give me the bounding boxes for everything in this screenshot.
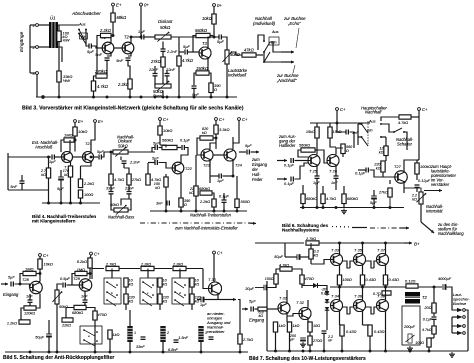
wire bbox=[36, 273, 40, 275]
wire bbox=[48, 338, 50, 353]
wire bbox=[191, 304, 193, 310]
wire bbox=[128, 199, 131, 210]
resistor 10 bbox=[308, 322, 312, 332]
wire bbox=[179, 269, 181, 279]
arrow to Echo jack bbox=[281, 51, 294, 54]
wire bbox=[309, 332, 311, 336]
svg-text:50kΩ: 50kΩ bbox=[160, 25, 171, 30]
resistor 150k bbox=[196, 71, 209, 75]
wire bbox=[370, 170, 384, 177]
wire bbox=[128, 53, 131, 57]
wire ground rail bbox=[42, 202, 100, 204]
wire ground rail bbox=[150, 210, 247, 212]
wire bbox=[166, 76, 168, 86]
svg-text:2.2nF: 2.2nF bbox=[166, 49, 178, 54]
input terminal 2 bbox=[36, 46, 39, 49]
wire bbox=[142, 330, 144, 337]
resistor 47k bbox=[242, 53, 256, 57]
resistor 12k bbox=[384, 146, 388, 156]
wire bbox=[326, 311, 328, 312]
wire bbox=[335, 179, 337, 191]
wire bbox=[374, 261, 377, 268]
wire bbox=[385, 243, 387, 254]
wire input bracket bbox=[29, 25, 31, 73]
wire bbox=[343, 262, 354, 270]
svg-text:4.7kΩ: 4.7kΩ bbox=[182, 58, 193, 63]
wire bbox=[404, 188, 421, 192]
wire bbox=[309, 345, 311, 351]
resistor 2.2k bbox=[212, 199, 216, 207]
wire bbox=[97, 47, 102, 49]
resistor 220k bbox=[381, 161, 385, 172]
resistor 560k bbox=[196, 33, 210, 37]
svg-text:Anschluß: Anschluß bbox=[34, 145, 53, 150]
transistor T3 bbox=[199, 47, 211, 59]
potentiometer Bass 50k bbox=[155, 81, 171, 91]
capacitor 5uF bbox=[99, 155, 101, 160]
wire bbox=[8, 189, 48, 191]
transistor T24 bbox=[224, 149, 236, 161]
wire bbox=[30, 72, 36, 74]
wire bbox=[403, 183, 405, 188]
wire bbox=[276, 269, 280, 274]
wire bbox=[330, 144, 336, 147]
wire bbox=[178, 37, 180, 56]
resistor 22k bbox=[62, 318, 73, 322]
wire bbox=[390, 197, 404, 201]
wire bbox=[286, 314, 288, 322]
svg-text:T 38: T 38 bbox=[377, 294, 386, 299]
svg-text:T 31: T 31 bbox=[279, 296, 287, 301]
svg-text:Nachhallsystems: Nachhallsystems bbox=[282, 228, 320, 233]
wire bbox=[416, 174, 418, 180]
wire bbox=[417, 286, 419, 292]
resistor 22k bbox=[194, 186, 198, 196]
capacitor 1uF bbox=[315, 176, 320, 178]
wire bbox=[309, 332, 311, 336]
terminal C+ bbox=[336, 108, 339, 111]
wire bbox=[159, 147, 163, 149]
terminal C+ bbox=[215, 118, 218, 121]
wire bbox=[374, 307, 377, 314]
wire input shield bbox=[7, 153, 9, 190]
capacitor 5nF bbox=[126, 58, 131, 60]
wire bbox=[152, 148, 155, 153]
wire bbox=[147, 163, 149, 174]
wire bbox=[86, 30, 89, 47]
wire signal bbox=[131, 36, 140, 38]
terminal C+ bbox=[418, 108, 421, 111]
wire bbox=[180, 174, 182, 198]
wire bbox=[340, 324, 343, 326]
wire bbox=[58, 24, 79, 26]
switch Hauptschalter bbox=[361, 121, 382, 146]
capacitor 5uF bbox=[155, 145, 157, 150]
wire bbox=[36, 75, 38, 98]
transistor T20 bbox=[62, 152, 73, 163]
svg-text:kΩ: kΩ bbox=[195, 283, 200, 287]
resistor 0.43 bbox=[383, 275, 387, 285]
wire bbox=[162, 342, 164, 352]
wire dash-dot bbox=[140, 222, 252, 224]
capacitor 5uF bbox=[251, 307, 253, 312]
wire bbox=[213, 254, 215, 282]
svg-text:Hallfeder: Hallfeder bbox=[279, 143, 296, 148]
arrowhead bbox=[248, 222, 256, 225]
wire bbox=[48, 338, 50, 353]
wire bbox=[94, 76, 97, 81]
wire bbox=[203, 269, 209, 289]
wire bbox=[350, 132, 355, 148]
wire bbox=[114, 47, 122, 49]
wire bbox=[267, 280, 276, 282]
wire bbox=[256, 54, 263, 56]
resistor 1k bbox=[108, 330, 112, 339]
wire bbox=[405, 286, 407, 292]
wire bbox=[302, 285, 313, 287]
wire bbox=[324, 334, 327, 352]
terminal C+ bbox=[418, 108, 421, 111]
wire bbox=[254, 243, 256, 288]
resistor 22k bbox=[194, 186, 198, 196]
wire bbox=[29, 303, 31, 307]
wire bbox=[287, 314, 299, 317]
switch filter c bbox=[140, 278, 157, 306]
capacitor 1uF bbox=[142, 35, 144, 40]
wire bbox=[298, 150, 309, 157]
capacitor 0.1uF bbox=[222, 200, 227, 202]
wire bbox=[36, 273, 40, 275]
resistor 560 bbox=[235, 199, 239, 208]
wire bbox=[48, 178, 50, 203]
svg-text:47kΩ: 47kΩ bbox=[244, 48, 254, 53]
wire bbox=[80, 198, 82, 203]
resistor 170k bbox=[68, 166, 72, 177]
wire bbox=[381, 136, 386, 138]
wire output rail bbox=[330, 286, 406, 288]
wire bbox=[120, 157, 122, 161]
wire bbox=[385, 312, 387, 321]
wire bbox=[373, 200, 375, 208]
capacitor 0.1uF bbox=[182, 145, 184, 150]
wire bbox=[72, 274, 75, 286]
resistor 2.2k bbox=[78, 179, 82, 188]
resistor 3.3k bbox=[309, 249, 313, 259]
wire bbox=[213, 24, 215, 37]
electrolytic 50uF bbox=[46, 334, 52, 337]
transistor T24 bbox=[224, 149, 236, 161]
wire bbox=[200, 342, 202, 352]
wire bbox=[284, 243, 286, 257]
wire dash-dot segment bbox=[352, 227, 367, 229]
wire bbox=[40, 278, 62, 284]
electrolytic 1uF bbox=[201, 297, 204, 303]
wire T33 base feed bbox=[311, 259, 331, 264]
wire bbox=[125, 304, 127, 310]
wire bbox=[102, 152, 113, 157]
wire bbox=[343, 260, 354, 267]
resistor 100 bbox=[78, 190, 82, 198]
wire bbox=[418, 286, 421, 292]
wire bbox=[295, 163, 309, 179]
wire bbox=[302, 332, 304, 338]
wire leader bbox=[296, 28, 299, 48]
wire bbox=[165, 187, 167, 211]
svg-text:Eingang: Eingang bbox=[3, 292, 19, 297]
wire bbox=[452, 317, 457, 326]
resistor 22k bbox=[62, 318, 73, 322]
terminal C+ bbox=[159, 118, 162, 121]
capacitor 1uF bbox=[219, 174, 221, 179]
wire bbox=[329, 123, 331, 127]
resistor 4.7k bbox=[280, 267, 292, 271]
wire bbox=[29, 294, 31, 301]
wire bbox=[213, 254, 215, 282]
wire bbox=[403, 188, 405, 193]
wire bbox=[223, 193, 225, 200]
svg-text:T2: T2 bbox=[422, 295, 427, 300]
svg-text:kΩ: kΩ bbox=[202, 131, 207, 135]
wire bbox=[58, 24, 79, 26]
wire bbox=[92, 269, 104, 280]
wire bbox=[30, 24, 36, 26]
wire bbox=[20, 274, 23, 285]
wire bbox=[418, 111, 420, 118]
wire bbox=[162, 42, 164, 49]
wire bbox=[292, 269, 302, 275]
wire bbox=[340, 324, 343, 326]
capacitor 22nF bbox=[165, 74, 170, 76]
resistor 4.7k bbox=[91, 81, 95, 91]
wire bbox=[29, 294, 31, 300]
svg-text:1MΩ: 1MΩ bbox=[25, 267, 34, 272]
wire bbox=[418, 111, 420, 118]
wire bbox=[129, 310, 131, 326]
capacitor 1nF bbox=[83, 300, 88, 302]
wire bbox=[125, 304, 127, 310]
wire bbox=[357, 124, 359, 145]
wire bbox=[339, 285, 341, 287]
wire bbox=[417, 286, 419, 287]
svg-text:Ein: Ein bbox=[367, 129, 373, 133]
wire bbox=[336, 243, 338, 254]
wire bbox=[7, 322, 9, 352]
resistor 150 bbox=[274, 274, 278, 284]
wire bbox=[147, 269, 149, 279]
wire bbox=[357, 145, 359, 170]
wire bbox=[323, 334, 325, 352]
svg-text:1µF: 1µF bbox=[217, 179, 224, 183]
wire bbox=[193, 36, 196, 53]
wire bbox=[451, 310, 453, 326]
wire bbox=[200, 310, 202, 326]
resistor 680k bbox=[200, 191, 212, 195]
wire bbox=[357, 145, 359, 170]
capacitor 5uF bbox=[11, 282, 13, 287]
transformer U1 bbox=[49, 22, 58, 48]
svg-text:100Ω: 100Ω bbox=[415, 341, 424, 345]
resistor 820k bbox=[200, 136, 213, 140]
resistor 4.7k bbox=[321, 194, 325, 204]
wire bbox=[418, 117, 420, 160]
wire bbox=[210, 35, 213, 37]
wire bbox=[36, 294, 40, 308]
resistor 0.43 bbox=[360, 275, 364, 285]
wire bbox=[350, 261, 354, 268]
wire bbox=[433, 334, 435, 338]
capacitor 2.2nF bbox=[322, 331, 327, 333]
wire bbox=[391, 293, 394, 299]
wire bbox=[326, 312, 328, 331]
wire bbox=[267, 280, 276, 282]
wire bbox=[302, 185, 304, 194]
wire bbox=[8, 189, 48, 191]
wire bbox=[84, 303, 86, 307]
potentiometer Diskant 50k bbox=[155, 32, 171, 42]
wire bbox=[390, 184, 404, 188]
resistor 1k bbox=[108, 330, 112, 339]
wire bbox=[39, 257, 41, 260]
resistor 10k bbox=[38, 259, 42, 269]
resistor 270k bbox=[96, 74, 107, 78]
switch filter a bbox=[80, 326, 102, 346]
transistor T3 bbox=[199, 47, 211, 59]
wire bbox=[106, 61, 108, 77]
wire bbox=[308, 321, 310, 323]
wire bbox=[326, 295, 328, 296]
resistor 390 bbox=[209, 83, 213, 93]
wire bbox=[358, 123, 362, 125]
wire bbox=[178, 66, 180, 97]
wire bbox=[315, 149, 317, 151]
resistor 1k bbox=[287, 322, 291, 332]
wire leg bbox=[302, 150, 304, 185]
wire ground rail bbox=[267, 350, 468, 352]
wire bbox=[74, 140, 76, 152]
diode chain D4 bbox=[325, 307, 329, 310]
capacitor 0.1uF bbox=[366, 168, 368, 173]
svg-text:d: d bbox=[179, 291, 181, 295]
svg-text:C+: C+ bbox=[219, 117, 225, 122]
wire bbox=[40, 278, 62, 284]
speaker jack contacts bbox=[457, 308, 465, 335]
capacitor 5uF bbox=[99, 155, 101, 160]
wire 0+ feed bbox=[140, 6, 142, 37]
svg-text:kΩ: kΩ bbox=[129, 300, 134, 304]
resistor 10k bbox=[212, 14, 216, 24]
svg-text:6.8nF: 6.8nF bbox=[168, 348, 178, 352]
wire bbox=[159, 121, 161, 127]
svg-text:4.7kΩ: 4.7kΩ bbox=[398, 121, 408, 125]
inductor L2 bbox=[160, 326, 165, 342]
wire bbox=[55, 156, 65, 158]
resistor 20 bbox=[432, 303, 436, 313]
wire bbox=[162, 52, 164, 58]
terminal C+ bbox=[215, 118, 218, 121]
wire bbox=[111, 35, 113, 37]
wire leader bbox=[293, 65, 295, 73]
wire bbox=[162, 42, 164, 49]
wire bbox=[295, 160, 309, 162]
capacitor 1nF bbox=[334, 176, 339, 178]
wire bbox=[185, 148, 188, 153]
resistor 1.2k bbox=[19, 320, 30, 324]
resistor 560 bbox=[341, 144, 345, 154]
wire bbox=[112, 31, 114, 36]
transistor T23 bbox=[201, 149, 213, 161]
svg-text:0.12Ω: 0.12Ω bbox=[405, 280, 415, 284]
svg-text:0.1µF: 0.1µF bbox=[284, 164, 295, 168]
terminal 0+ bbox=[140, 3, 143, 6]
wire bbox=[342, 154, 344, 158]
potentiometer 50k bbox=[53, 290, 63, 304]
wire bbox=[39, 269, 41, 282]
wire bbox=[236, 176, 238, 199]
wire bbox=[391, 293, 394, 299]
capacitor 2.2nF bbox=[122, 161, 127, 163]
svg-text:Nachhall: Nachhall bbox=[365, 110, 382, 115]
resistor 20 bbox=[432, 303, 436, 313]
svg-text:22nF: 22nF bbox=[148, 67, 159, 72]
wire bbox=[129, 310, 131, 326]
transistor T2 bbox=[122, 42, 134, 54]
wire bbox=[111, 269, 113, 279]
wire input bbox=[8, 156, 51, 158]
wire bbox=[316, 167, 318, 177]
resistor 560 bbox=[341, 144, 345, 154]
svg-text:„Echo“: „Echo“ bbox=[287, 21, 301, 26]
wire bbox=[39, 24, 50, 26]
wire bbox=[119, 268, 140, 270]
wire bbox=[55, 156, 65, 158]
resistor 150k bbox=[196, 71, 209, 75]
transistor T29 bbox=[79, 279, 91, 291]
wire bbox=[107, 53, 111, 57]
wire bbox=[181, 152, 188, 163]
switch filter c bbox=[140, 278, 157, 306]
capacitor 22nF bbox=[153, 74, 158, 76]
svg-text:10kΩ: 10kΩ bbox=[78, 129, 87, 134]
wire bbox=[416, 188, 418, 193]
transistor T21 bbox=[83, 152, 94, 163]
wire bbox=[452, 308, 457, 310]
wire bbox=[326, 303, 328, 304]
svg-text:Eingänge: Eingänge bbox=[19, 31, 25, 52]
wire dash-dot bbox=[370, 227, 404, 229]
resistor 220k bbox=[381, 161, 385, 172]
wire bbox=[159, 135, 161, 145]
wire bbox=[316, 123, 318, 127]
transistor T20 bbox=[62, 152, 73, 163]
resistor 1M bbox=[75, 271, 87, 275]
wire bbox=[385, 243, 387, 254]
arrow input bbox=[1, 283, 8, 286]
wire bbox=[357, 192, 359, 208]
resistor 0.43 bbox=[340, 325, 344, 336]
svg-text:Ω: Ω bbox=[184, 203, 187, 207]
wire ground rail bbox=[150, 210, 247, 212]
svg-text:Bild 3. Vorverstärker mit Klan: Bild 3. Vorverstärker mit Klangeinstell-… bbox=[22, 106, 244, 112]
wire bbox=[287, 321, 290, 323]
wire bbox=[205, 299, 219, 301]
wire bbox=[110, 152, 112, 174]
wire bbox=[268, 284, 277, 288]
transistor T1 bbox=[102, 42, 114, 54]
resistor 560k bbox=[196, 33, 210, 37]
capacitor 1uF bbox=[219, 174, 221, 179]
wire bbox=[223, 203, 225, 212]
resistor 470 bbox=[300, 275, 304, 284]
